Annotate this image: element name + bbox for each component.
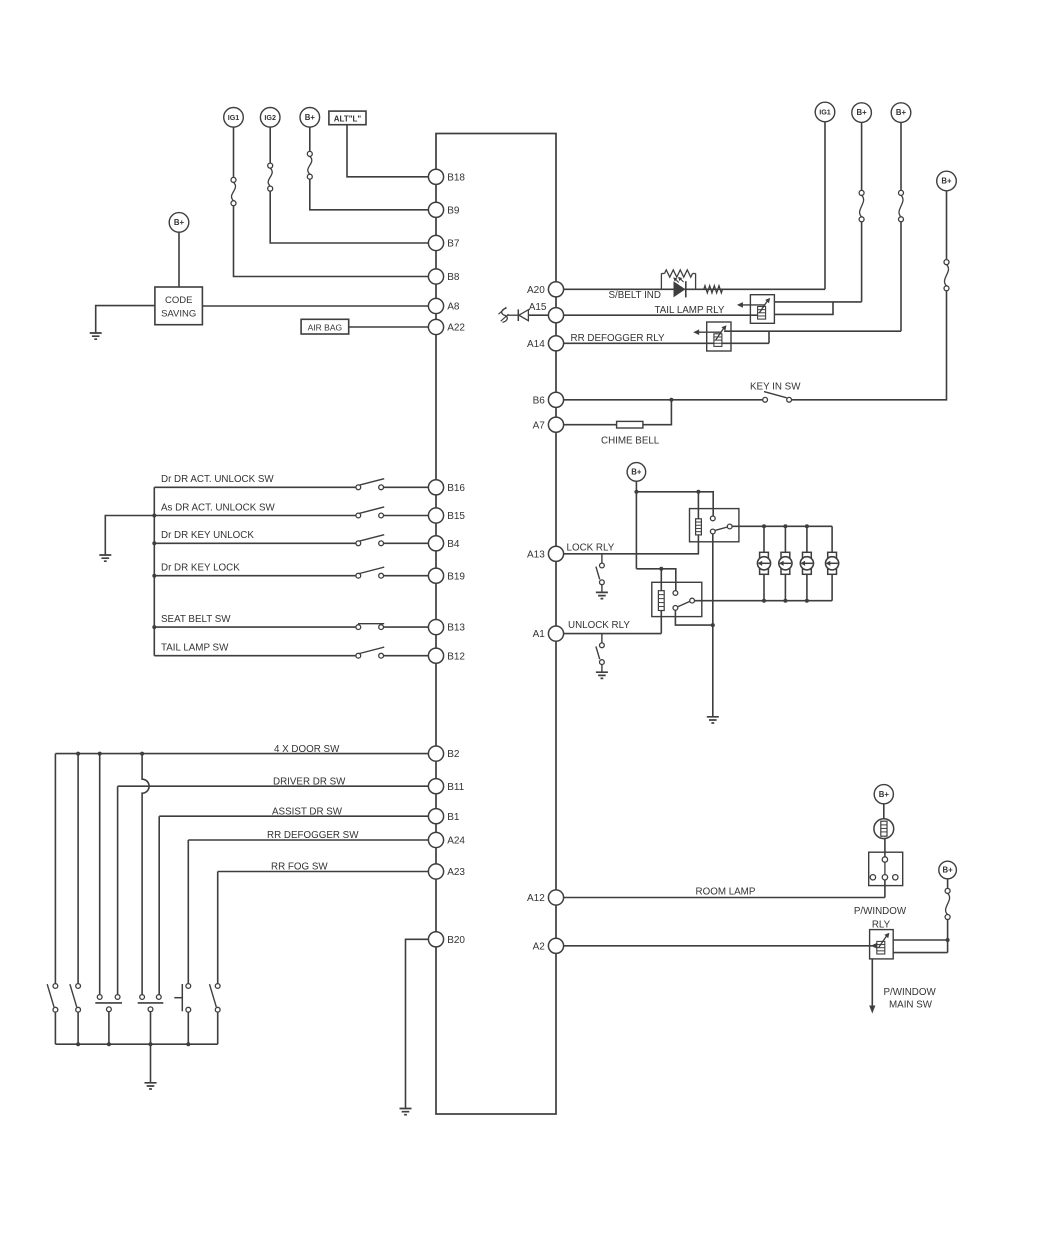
wire 4X DOOR SW row [55,753,428,755]
wire sw2 stub [77,1012,79,1044]
svg-text:B11: B11 [447,782,464,793]
svg-text:IG1: IG1 [228,113,240,122]
svg-text:MAIN SW: MAIN SW [889,1000,933,1011]
pin B2 [428,746,443,761]
relay P/WINDOW RLY [870,930,894,959]
svg-text:TAIL LAMP SW: TAIL LAMP SW [161,643,229,654]
svg-text:B16: B16 [447,483,465,494]
svg-text:B1: B1 [447,812,460,823]
pin B7 [428,235,443,250]
pin A14 [548,336,563,351]
svg-text:B8: B8 [447,272,460,283]
pin A13 [548,546,563,561]
junction dots on 4X DOOR wire [76,752,80,756]
wire drop rr fog sw [217,872,219,984]
wire DRIVER DR SW row [118,785,429,787]
wire row B15 right segment [384,515,429,517]
contacts room lamp switch [870,875,875,880]
wire IG2 to B7 [270,191,428,243]
svg-text:B7: B7 [447,239,460,250]
wire CODE SAVING to A8 [202,305,428,307]
svg-text:A13: A13 [527,549,545,560]
svg-text:B4: B4 [447,539,460,550]
arrowhead on A2 wire [871,943,877,949]
switch contacts LOCK RLY [710,516,715,521]
wire relay bottom pin to B+ (p/window) [893,952,947,954]
fuse on IG1 line [231,177,236,182]
wire relay top pin to B+ (p/window) [893,939,947,941]
relay TAIL LAMP RLY [750,295,774,324]
wire diode to A15 pin [528,314,548,316]
door switch SW6 [215,984,220,989]
wire sw6 stub [217,1012,219,1044]
svg-text:LOCK RLY: LOCK RLY [567,542,615,553]
door switch SW2 [76,984,81,989]
svg-text:RR DEFOGGER RLY: RR DEFOGGER RLY [571,333,665,344]
wire A13 to coil [697,535,699,554]
wire B15 row to ground [105,516,154,555]
svg-text:SAVING: SAVING [161,308,196,319]
push switch SW5 [186,984,191,989]
switch Dr DR ACT. UNLOCK SW [356,485,361,490]
svg-text:CODE: CODE [165,295,192,306]
coil UNLOCK RLY [658,591,664,611]
wire row B16 left segment [154,486,356,488]
pin B9 [428,202,443,217]
wire lock relay output to top bus [732,525,832,527]
pin A22 [428,319,443,334]
junction dot at unlock return [711,623,715,627]
svg-text:TAIL LAMP RLY: TAIL LAMP RLY [655,305,725,316]
svg-text:B9: B9 [447,205,460,216]
wire inside switch box [884,862,886,874]
wire sw1 stub [54,1012,56,1044]
junction dot p/window B+ [946,938,950,942]
room lamp switch box [869,852,903,885]
svg-text:As DR ACT. UNLOCK SW: As DR ACT. UNLOCK SW [161,502,276,513]
wire ASSIST DR SW row [159,815,428,817]
junction dots ground bus [76,1042,80,1046]
svg-text:B12: B12 [447,651,465,662]
wire B6 row right part [792,291,947,400]
wire B+ main drop [635,481,637,569]
wire lock common down [712,534,714,716]
junction dot A7/B6 [669,398,673,402]
ground (lock/unlock relays) [707,717,719,723]
fuse on p/window B+ line [945,888,950,893]
svg-text:CHIME BELL: CHIME BELL [601,435,660,446]
junction dot B+ upper [634,490,638,494]
door lock switch SW3 (2-contact) [97,995,102,1000]
svg-text:ALT"L": ALT"L" [334,114,362,123]
wire row B12 right segment [384,655,429,657]
pin A20 [548,282,563,297]
svg-text:P/WINDOW: P/WINDOW [854,906,907,917]
wire ALT L to B18 [347,125,428,177]
svg-text:SEAT BELT SW: SEAT BELT SW [161,614,231,625]
switch SEAT BELT SW [356,625,361,630]
junction dots motor buses [762,524,766,528]
svg-text:A7: A7 [533,420,546,431]
wire row B12 left segment [154,655,356,657]
svg-text:A15: A15 [529,302,547,313]
diode D2 at A15 [517,309,519,321]
wire B+ to lamp [883,804,885,819]
svg-text:Dr DR KEY UNLOCK: Dr DR KEY UNLOCK [161,530,254,541]
wire B+ vertical join [947,940,949,953]
wire unlock coil feed drop [660,569,662,591]
pin B19 [428,568,443,583]
wire drop assist sw [158,816,160,994]
wire sw3 stub [108,1012,110,1044]
pin B4 [428,536,443,551]
terminal B+ (code saving) [169,213,189,233]
svg-text:RR FOG SW: RR FOG SW [271,862,328,873]
wire AIR BAG to A22 [349,326,429,328]
svg-text:B+: B+ [879,790,890,799]
fuse on rr defogger B+ line [899,190,904,195]
coil LOCK RLY [696,519,702,535]
terminal B+ (key in sw) [937,171,957,191]
pin B11 [428,779,443,794]
svg-text:B+: B+ [941,177,952,186]
wire row B15 left segment [154,515,356,517]
wire ground bus [55,1043,217,1045]
wire B+ to CODE SAVING [178,232,180,287]
svg-text:B13: B13 [447,623,465,634]
terminal B+ (p/window rly) [939,861,957,879]
motor M3 door lock [803,552,812,557]
pin A1 [548,626,563,641]
terminal B+ (room lamp) [874,785,893,804]
resistor R1 (parallel, S/BELT IND) [660,274,662,290]
wire A12 riser [884,880,886,897]
LED D1 S/BELT IND [674,281,686,297]
svg-text:ASSIST DR SW: ASSIST DR SW [272,806,343,817]
wire A2 row [564,945,877,947]
wire unlock relay output to bottom bus [695,600,833,602]
wire p/window output down arrow [871,959,873,1008]
ground (switch bank) [145,1083,157,1089]
wire CODE SAVING to ground [96,306,155,333]
junction dot lock coil feed [696,490,700,494]
switch Dr DR KEY UNLOCK [356,541,361,546]
svg-text:B19: B19 [447,571,465,582]
svg-text:DRIVER DR SW: DRIVER DR SW [273,776,346,787]
switch to ground at A1 [601,634,603,643]
wire IG1 to B8 [234,206,429,277]
svg-text:B+: B+ [305,113,316,122]
wire drop door sw 4 with hop [142,754,149,995]
wire B+ drop (tail lamp) [861,122,863,190]
wire fuse to relay [861,222,863,302]
wire fuse to relay [900,222,902,332]
svg-text:B+: B+ [174,218,185,227]
wire relay to B+ jog [724,331,901,343]
wire row B19 left segment [154,575,356,577]
resistor R2 (series) [704,286,723,293]
wire fuse to relay pins [947,919,949,940]
wire A1 row [564,633,662,635]
relay box UNLOCK RLY [652,582,702,616]
pin A15 [548,308,563,323]
svg-text:A24: A24 [447,836,465,847]
wire A12 row [564,897,885,899]
wire relay bottom pin jog [774,302,833,315]
resistor R3 CHIME BELL [617,421,643,428]
wire row B13 left segment [154,626,356,628]
pin B16 [428,480,443,495]
svg-text:UNLOCK RLY: UNLOCK RLY [568,620,630,631]
pin A23 [428,864,443,879]
switch to ground at A13 [601,554,603,563]
motor bus corner stems (4th) [831,526,833,552]
pin B15 [428,508,443,523]
motor M2 door lock [781,552,790,557]
wire A14 row [564,342,769,344]
wire B+ drop (p/window) [947,879,949,889]
terminal IG2 (top left) [260,108,280,128]
wire drop rr defogger sw [187,840,189,984]
wire row B19 right segment [384,575,429,577]
svg-text:S/BELT IND: S/BELT IND [609,290,661,301]
wire motor top bus stems [763,526,765,552]
svg-text:4 X DOOR SW: 4 X DOOR SW [274,744,340,755]
svg-text:B2: B2 [447,749,460,760]
svg-text:ROOM LAMP: ROOM LAMP [696,887,756,898]
wire B+ branch to unlock relay [636,569,675,591]
svg-text:A22: A22 [447,323,465,334]
pin A8 [428,298,443,313]
svg-text:B+: B+ [943,866,954,875]
relay box LOCK RLY [690,509,739,542]
ground (B15 row) [99,555,111,561]
wire row B4 right segment [384,542,429,544]
wire chime bell to junction [643,400,672,425]
svg-text:A8: A8 [447,302,460,313]
svg-text:A2: A2 [533,941,546,952]
wire drop driver sw [117,786,119,994]
pin B8 [428,269,443,284]
pin A12 [548,890,563,905]
svg-text:B18: B18 [447,172,465,183]
connector box ALT L [329,111,366,125]
pin A2 [548,938,563,953]
switch contacts UNLOCK RLY [673,591,678,596]
wire relay top pin to B+ [774,301,861,303]
pin B1 [428,809,443,824]
wire B20 to ground [406,939,429,1108]
wire A13 row [564,553,699,555]
wire IG1 vertical [233,127,235,177]
wire A7 row [564,424,617,426]
wire fuse to terminal [946,191,948,260]
wire sw4 stub to ground [150,1012,152,1083]
switch Dr DR KEY LOCK [356,573,361,578]
wire coil feed drop [697,492,699,519]
box CODE SAVING [155,287,203,325]
terminal B+ (tail lamp rly) [852,103,872,123]
svg-text:B+: B+ [896,108,907,117]
svg-text:A23: A23 [447,867,465,878]
wire lamp to switch [884,839,886,857]
door switch SW1 [53,984,58,989]
connector box AIR BAG [301,319,349,334]
switch TAIL LAMP SW [356,653,361,658]
svg-text:AIR BAG: AIR BAG [308,323,342,333]
svg-text:A12: A12 [527,893,545,904]
pin B18 [428,169,443,184]
wire row B4 left segment [154,542,356,544]
motor M4 door lock [828,552,837,557]
svg-text:Dr DR KEY LOCK: Dr DR KEY LOCK [161,563,240,574]
wire B+ vertical [309,127,311,151]
wire B+ to lock relay [636,492,713,516]
wire sw5 stub [187,1012,189,1044]
wire A1 to coil [660,611,662,634]
door lock switch SW4 (2-contact) [140,995,145,1000]
relay RR DEFOGGER RLY [707,322,731,351]
svg-text:A1: A1 [533,629,546,640]
svg-text:A14: A14 [527,339,545,350]
fuse on tail lamp B+ line [859,190,864,195]
svg-text:P/WINDOW: P/WINDOW [884,987,937,998]
wire unlock common return [675,610,712,625]
svg-text:B6: B6 [533,395,546,406]
terminal IG1 (right) [815,102,835,122]
wire B+ to B9 [310,179,429,210]
wire RR DEFOGGER SW row [188,839,428,841]
switch As DR ACT. UNLOCK SW [356,513,361,518]
fuse on IG2 line [268,163,273,168]
motor M1 door lock [760,552,769,557]
pin A7 [548,417,563,432]
wire drop door sw 3 [99,754,101,995]
terminal B+ (rr defogger rly) [891,103,911,123]
wire A20 row [564,288,825,290]
svg-text:B20: B20 [447,935,465,946]
wire IG2 vertical [269,127,271,163]
wire left bus vertical [153,487,155,655]
junction dot unlock coil feed [659,567,663,571]
svg-text:Dr DR ACT. UNLOCK SW: Dr DR ACT. UNLOCK SW [161,474,274,485]
ground (code saving) [90,333,102,339]
wire row B13 right segment [384,626,429,628]
svg-text:KEY IN SW: KEY IN SW [750,382,801,393]
junction dots on left bus [152,514,156,518]
break symbol at A15 [502,308,508,322]
wire A15 row [564,314,762,316]
pin B13 [428,620,443,635]
svg-text:B+: B+ [631,468,642,477]
pin B6 [548,392,563,407]
wire row B16 right segment [384,486,429,488]
bulb room lamp [874,819,894,839]
fuse on B+ line [307,151,312,156]
svg-text:A20: A20 [527,285,545,296]
svg-text:B+: B+ [857,108,868,117]
pin B12 [428,648,443,663]
terminal IG1 (top left) [224,108,244,128]
fuse on key-in B+ line [944,260,949,265]
wire A20 to IG1 [824,122,826,289]
svg-text:RR DEFOGGER SW: RR DEFOGGER SW [267,830,359,841]
terminal B+ (lock rly) [627,463,646,482]
wire drop door sw 1 [54,754,56,984]
wire B+ drop (rr defogger) [900,122,902,190]
wire RR FOG SW row [218,871,429,873]
svg-text:IG1: IG1 [819,108,831,117]
pin B20 [428,932,443,947]
ground (B20) [400,1109,412,1115]
switch KEY IN SW [763,397,768,402]
svg-text:IG2: IG2 [264,113,276,122]
pin A24 [428,832,443,847]
wire B6 row left part [564,399,763,401]
svg-text:B15: B15 [447,511,465,522]
wire break to diode [508,314,519,316]
wire drop door sw 2 [77,754,79,984]
terminal B+ (top left) [300,108,320,128]
ECU main box U1 [436,134,556,1115]
